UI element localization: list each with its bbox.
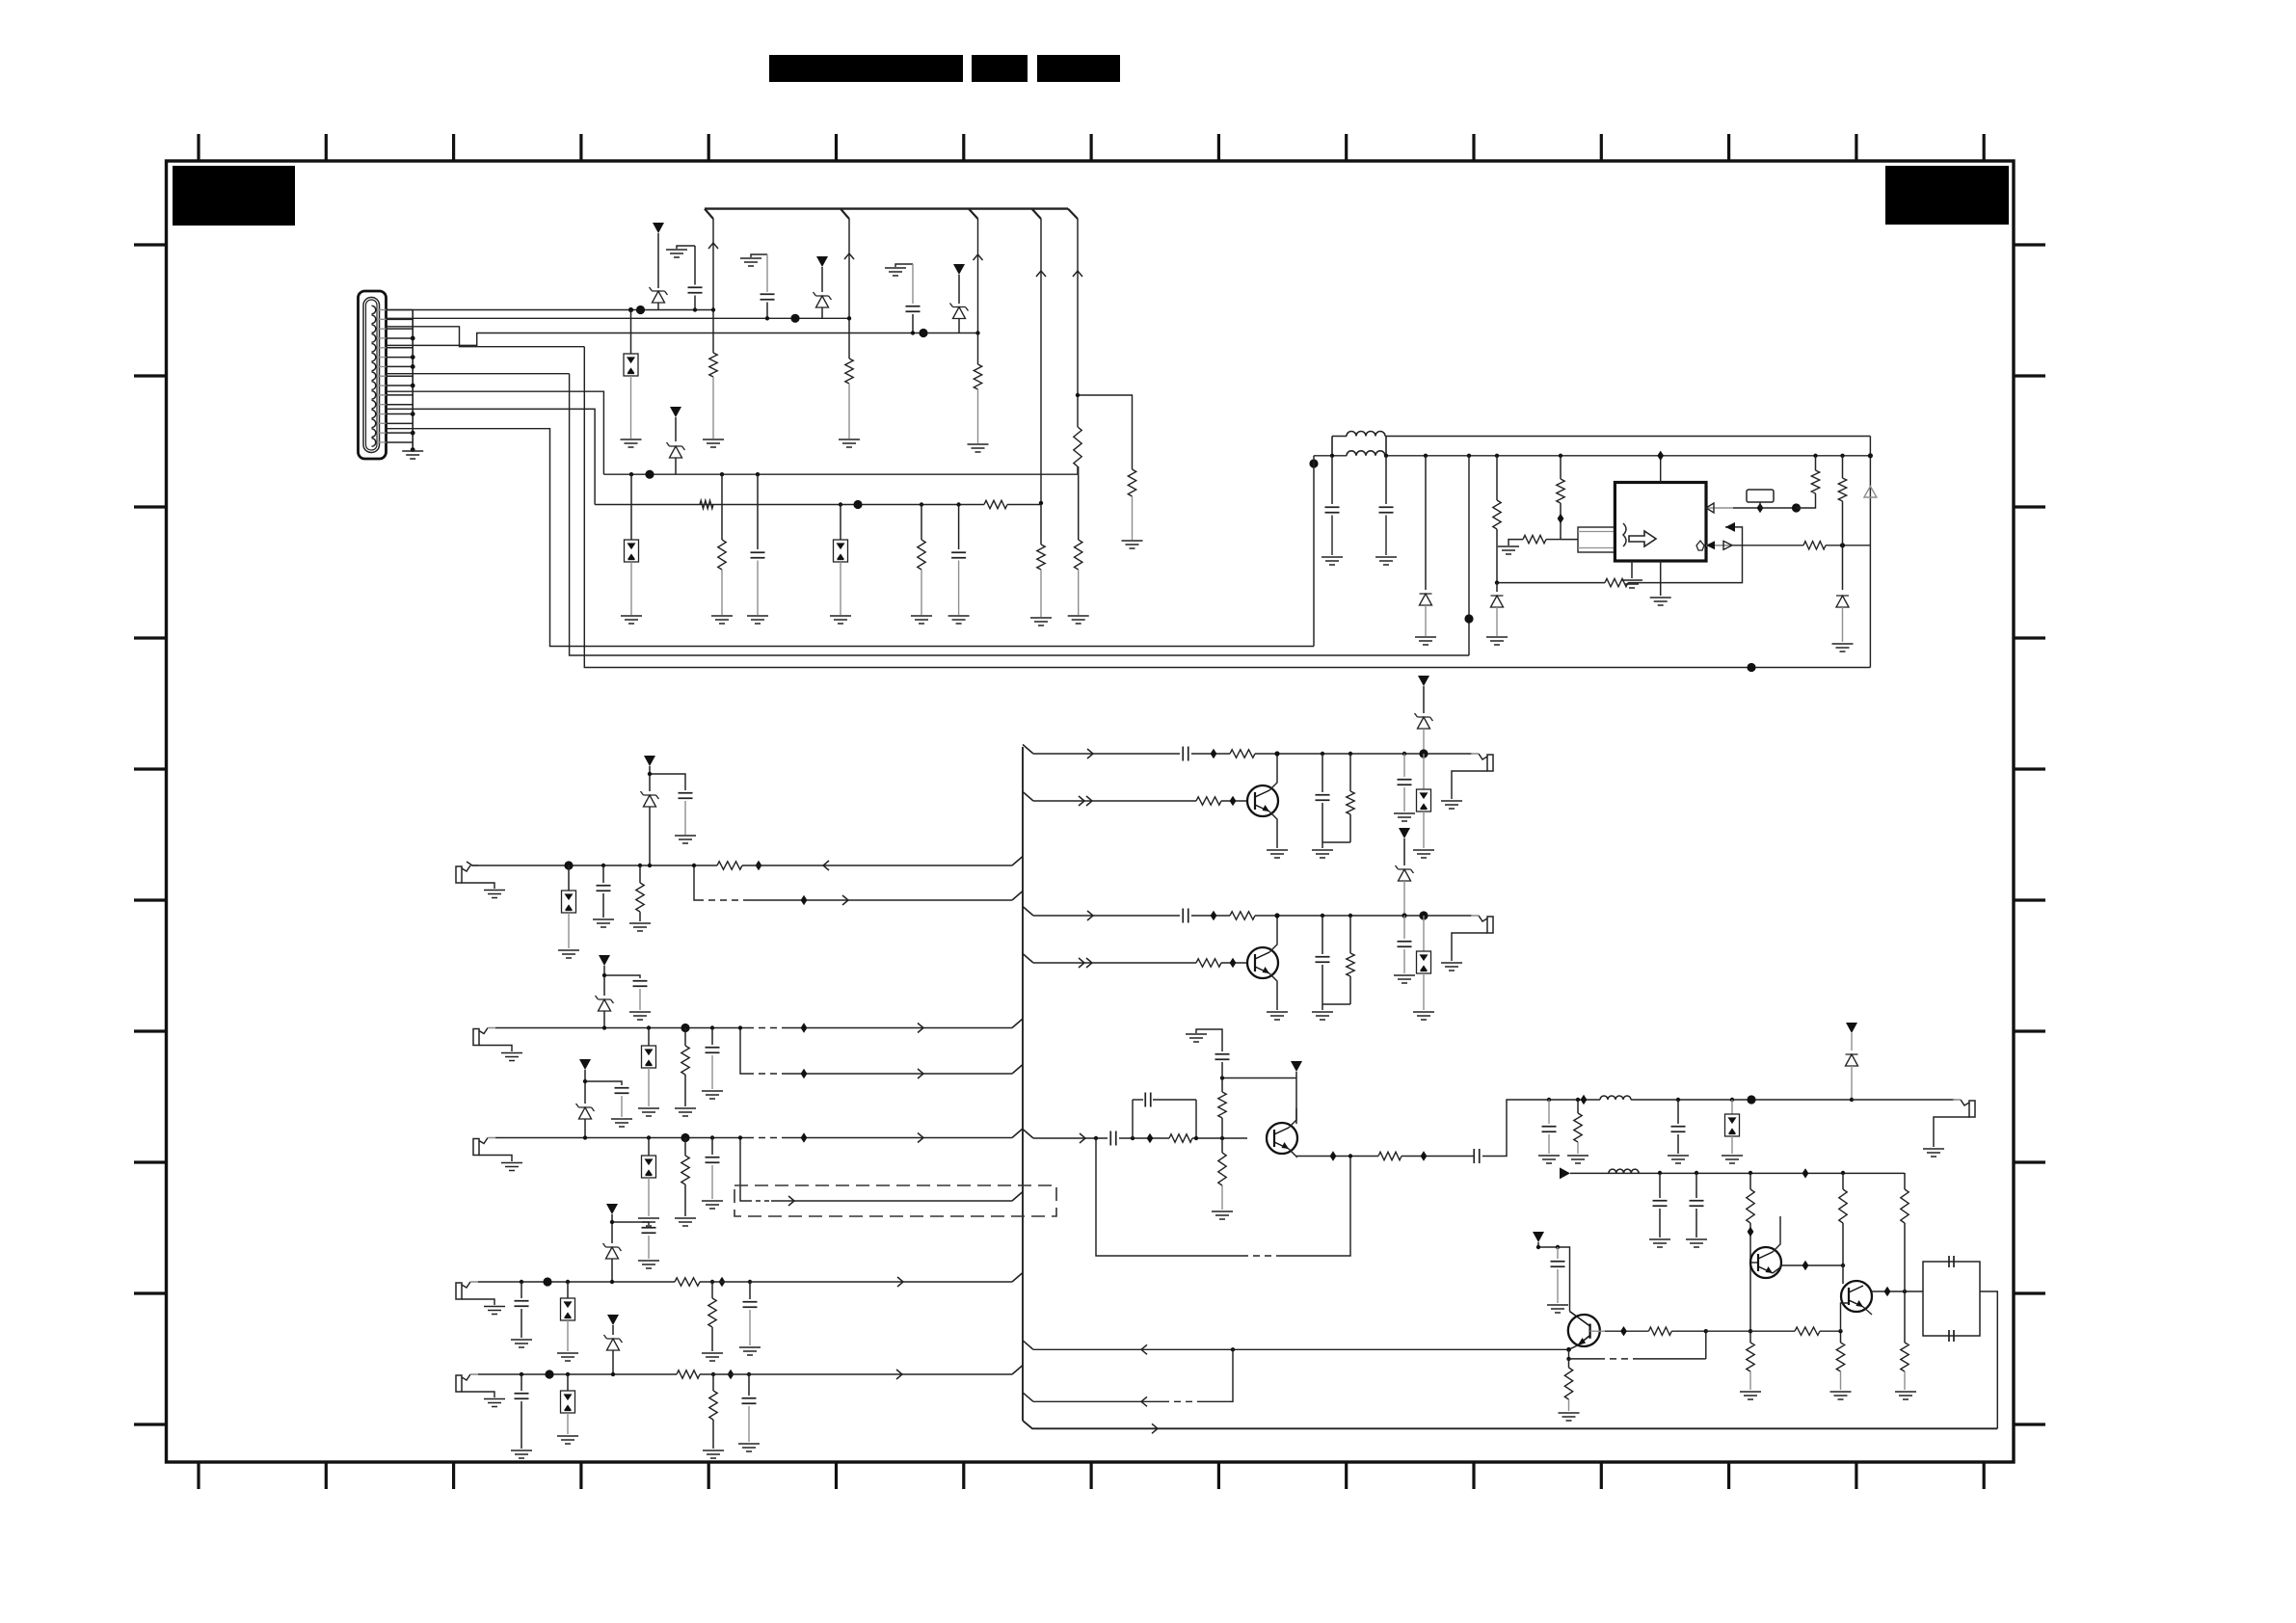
Q3 emitter wire [1289, 1149, 1296, 1157]
junction dot [853, 500, 862, 509]
wire mic in [1023, 1130, 1033, 1139]
wire jack2 main [495, 1027, 740, 1029]
capacitor C28 [1221, 1062, 1223, 1078]
ground [1030, 618, 1052, 625]
wire jack4 to bus [700, 1281, 1012, 1283]
ground [675, 836, 696, 843]
ground for connector [402, 451, 423, 459]
ground [593, 919, 614, 927]
ground [629, 1012, 651, 1020]
rail drop diagonal 3 [969, 209, 978, 219]
zener diode D16 [576, 1104, 595, 1119]
ground [839, 439, 860, 447]
wire net L2 [387, 317, 850, 319]
junction dot [1464, 614, 1473, 623]
wire Q4 collector feed [1538, 1247, 1570, 1312]
IC top pin [1660, 456, 1662, 483]
junction V4 line B [1039, 501, 1043, 505]
rail drop diagonal 2 [841, 209, 849, 219]
zener diode D3 [814, 292, 832, 307]
ruler tick marks [134, 134, 2045, 1489]
IC pin A wire [1706, 507, 1733, 509]
wire hp2 top [1023, 907, 1033, 917]
ground [1415, 637, 1436, 645]
IC pin bundle [1578, 527, 1615, 552]
ceramic filter X1 [1923, 1262, 1980, 1336]
wire base node [1222, 1078, 1296, 1079]
ground [948, 616, 970, 624]
ground [1668, 1156, 1689, 1163]
capacitor C7 [1384, 454, 1388, 458]
ground [675, 1108, 696, 1116]
transistor Q1 [1247, 785, 1278, 816]
ground [1559, 1413, 1580, 1421]
wire jack3 branch in callout [740, 1138, 747, 1202]
resistor R10 [920, 502, 923, 506]
capacitor C23 [1402, 752, 1406, 756]
transistor Q2 [1247, 947, 1278, 978]
jack CN9 [1969, 1101, 1975, 1117]
resistor R2 [845, 359, 853, 384]
resistor R40 [1904, 1173, 1906, 1189]
ground [711, 616, 733, 624]
resistor R3 [974, 364, 981, 389]
supply arrow 7 [579, 1059, 591, 1070]
wire hp1 top [1023, 745, 1033, 755]
ESD diode pair D12 [568, 865, 570, 891]
ground [830, 616, 851, 624]
rail drop diagonal 1 [705, 209, 713, 219]
wire emitter out [1296, 1156, 1378, 1157]
connector J1 pins [372, 306, 376, 446]
junction dot [1419, 749, 1428, 758]
connector pin wires [387, 310, 414, 442]
resistor R9 series [984, 500, 1007, 508]
capacitor C34 [1556, 1245, 1560, 1249]
resistor R24 [710, 1280, 714, 1284]
ground [1567, 1156, 1589, 1163]
ground [703, 439, 724, 447]
rail end diagonal [1068, 209, 1078, 219]
junction dot [681, 1024, 689, 1032]
wire hp2 base [1023, 954, 1033, 964]
zener diode D19 [603, 1243, 622, 1259]
resistor R19 [638, 864, 642, 867]
zener diode D4 [950, 304, 969, 319]
transistor Q6 [1841, 1281, 1872, 1312]
wire line U upper [1332, 436, 1870, 438]
capacitor C16 [520, 1280, 523, 1284]
resistor R8 at line A end [1078, 474, 1080, 540]
jack CN3 [473, 1029, 479, 1046]
resistor R26 [711, 1372, 715, 1376]
ESD diode pair D5 [630, 474, 632, 540]
inductor L3 [1609, 1169, 1639, 1173]
wire to IC pin B [1628, 527, 1743, 583]
rail drop diagonal 4 [1032, 209, 1042, 219]
IC ground stubs [1631, 561, 1633, 578]
wire pin12 staircase to line B [387, 409, 596, 504]
ground [558, 950, 579, 958]
ground [638, 1218, 659, 1226]
capacitor C22 [1321, 752, 1324, 756]
ground [702, 1353, 723, 1361]
wire pin8 to vertical Vb [387, 373, 570, 375]
junction dot [919, 329, 927, 337]
vertical V3 with arrow [977, 219, 979, 364]
ground [511, 1340, 532, 1347]
ground [702, 1091, 723, 1099]
ground [1413, 850, 1434, 858]
resistor R41 bias [1749, 1329, 1752, 1333]
zener diode D2 [650, 287, 668, 303]
resistor R31 series [1196, 959, 1221, 967]
diamond marker [719, 1277, 726, 1287]
ground [511, 1450, 532, 1458]
supply arrow [653, 223, 664, 233]
zener diode D14 [596, 996, 614, 1011]
IC pin B arrowhead [1725, 522, 1735, 532]
ground [1830, 1392, 1852, 1399]
resistor R11 [1040, 505, 1042, 545]
jack CN8 [1487, 917, 1493, 933]
diamond marker [756, 861, 762, 870]
ground [747, 616, 768, 624]
diamond marker [728, 1370, 734, 1379]
vertical V5 with arrow [1077, 219, 1079, 427]
wire output line1 left [1549, 1099, 1600, 1101]
resistor R14 [1559, 454, 1562, 458]
ESD diode pair D23 [1423, 754, 1425, 789]
jack CN4 [473, 1139, 479, 1156]
ground [1538, 1156, 1560, 1163]
series capacitor C27 [1110, 1131, 1116, 1146]
wire to pin B [1497, 582, 1605, 584]
ESD diode pair D25 [1423, 916, 1425, 951]
zener diode D13 [641, 791, 659, 807]
resistor R38 [1749, 1171, 1752, 1175]
wire pin14 staircase to vertical Va [387, 429, 550, 463]
ground [1486, 637, 1508, 645]
wire net L1 [387, 309, 714, 311]
zener diode D22 [1415, 713, 1433, 729]
capacitor C2 [766, 254, 768, 292]
junction dot [790, 314, 799, 323]
ground [1212, 1211, 1233, 1219]
ground [739, 1347, 761, 1355]
ground [1394, 813, 1415, 821]
transistor Q4 [1568, 1315, 1600, 1346]
zener diode D21 [604, 1335, 623, 1350]
capacitor C14 branch [585, 1081, 622, 1085]
vertical V2 with arrow [848, 219, 850, 359]
wire output line2 [1570, 1172, 1905, 1174]
IC U1 box [1615, 483, 1706, 562]
ground [702, 1201, 723, 1209]
wire jack2 to bus [740, 1027, 747, 1029]
junction dot [1747, 663, 1755, 672]
ground hook [677, 246, 695, 249]
wire vertical Vc to nested line 3 [584, 347, 1870, 668]
resistor R17 series [1803, 542, 1826, 549]
resistor R5 [1074, 427, 1081, 466]
wire output line1 [1631, 1099, 1852, 1101]
resistor R42 bias [1840, 1331, 1842, 1343]
ground [1895, 1392, 1916, 1399]
ground [1649, 1239, 1670, 1247]
top-right label box [1885, 166, 2009, 225]
capacitor C3 [912, 264, 914, 304]
diode D11 gray [1864, 487, 1877, 498]
capacitor C11 branch [604, 975, 640, 978]
wire net L3 with jog [387, 333, 978, 346]
supply arrow 2 [816, 256, 828, 267]
wire jack3 to bus [740, 1137, 747, 1139]
capacitor C1 [694, 246, 696, 285]
zener diode D24 [1396, 865, 1414, 881]
ESD diode pair D1 [630, 310, 632, 355]
resistor R20 series [717, 862, 742, 869]
jack CN6 [456, 1375, 462, 1392]
supply arrow 4 [670, 407, 681, 417]
junction dot [1309, 459, 1318, 467]
wire pin10 staircase to line A [387, 391, 604, 474]
wire to jack [1852, 1099, 1955, 1101]
capacitor C4 [756, 472, 760, 476]
ESD diode pair D26 [1730, 1098, 1734, 1102]
inductor L1a [1347, 432, 1385, 437]
wire jack5 to bus [700, 1373, 1012, 1375]
wire vertical Vb to nested line 2 [570, 374, 1469, 655]
capacitor C15 [710, 1135, 714, 1139]
feedback cap bridge [1132, 1100, 1134, 1138]
junction dot [545, 1370, 553, 1378]
wire Q4 below resistor [1568, 1359, 1570, 1368]
wire branch to V6 [1078, 395, 1133, 469]
junction dot [564, 861, 573, 869]
IC internal pentagon [1696, 541, 1704, 550]
capacitor C32 [1658, 1171, 1662, 1175]
supply arrow 8 [606, 1204, 618, 1214]
resistor R18 [1840, 454, 1844, 458]
ESD diode pair D15 [647, 1025, 651, 1029]
supply arrow 11 [1399, 828, 1410, 838]
supply arrow 3 [953, 264, 965, 275]
junction [1840, 543, 1845, 547]
capacitor C18 [748, 1280, 752, 1284]
wire to bus [742, 865, 759, 866]
ESD diode pair D18 [566, 1280, 570, 1284]
capacitor C20 [747, 1372, 751, 1376]
resistor R12 [1495, 454, 1499, 458]
resistor R33 series [1169, 1134, 1192, 1142]
ESD diode pair D17 [647, 1135, 651, 1139]
ground [1547, 1305, 1568, 1313]
resistor R15 to ground [1523, 535, 1546, 543]
dashed callout box [734, 1185, 1056, 1216]
capacitor C30 [1547, 1098, 1551, 1102]
signal bus [1022, 747, 1024, 1421]
ground [911, 616, 932, 624]
resistor R28 series [1196, 797, 1221, 805]
resistor R7 [720, 472, 724, 476]
supply arrow 14 [1533, 1232, 1544, 1242]
ground [638, 1108, 659, 1116]
resistor R34 base pullup [1220, 1136, 1224, 1140]
wire line B left segment resistor [700, 500, 713, 508]
resistor R29 [1348, 752, 1352, 756]
junction dot [1419, 911, 1428, 919]
top supply rail [705, 207, 1068, 209]
ground [1740, 1392, 1761, 1399]
wire jack2 branch [740, 1028, 747, 1075]
supply rail mid [1314, 455, 1870, 457]
ground [557, 1436, 578, 1444]
resistor R1 [709, 353, 717, 377]
title block bar 3 [1037, 55, 1120, 82]
wire filter return [1980, 1291, 1997, 1428]
ground [1394, 975, 1415, 983]
inductor L1b [1347, 451, 1385, 456]
wire vertical Va to nested line 1 [550, 463, 1315, 647]
wire line B [595, 504, 984, 506]
Q2 collector wire [1269, 916, 1277, 952]
wire Q4 base line [1023, 1341, 1033, 1350]
ground [629, 923, 651, 931]
diamond marker [1581, 1095, 1588, 1104]
diode D9 [1496, 583, 1498, 592]
wire pin3 staircase to vertical Vc [387, 327, 585, 347]
vertical V1 with arrow [712, 219, 714, 353]
IC pin C wire [1706, 545, 1733, 546]
resistor R36 series [1378, 1152, 1402, 1159]
junction dot [1747, 1095, 1755, 1104]
vertical V4 with arrow [1040, 219, 1042, 503]
feedback loop lower [1096, 1138, 1241, 1256]
wire jack5 main [478, 1373, 677, 1375]
supply arrow 6 [599, 955, 610, 966]
schematic border frame [167, 161, 2015, 1462]
ground [1832, 644, 1854, 652]
series capacitor C29 [1474, 1149, 1480, 1163]
wire Q6 out to filter [1872, 1290, 1923, 1292]
junction dots on collector [411, 336, 415, 341]
series capacitor C21 [1183, 747, 1188, 761]
resistor R45 series [1706, 1330, 1795, 1332]
ground hook 3 [895, 264, 913, 267]
Q1 emitter wire [1269, 811, 1277, 848]
ground hook 2 [751, 254, 767, 257]
capacitor C5 [956, 502, 960, 506]
resistor R22 [684, 1138, 686, 1157]
ESD diode pair D20 [566, 1372, 570, 1376]
zener diode D6 [667, 442, 685, 458]
vertical right loop [1869, 437, 1871, 668]
wire jack3 main [495, 1137, 740, 1139]
wire hp1 base [1023, 792, 1033, 802]
resistor R16 [1813, 454, 1817, 458]
transistor Q5 [1750, 1247, 1781, 1278]
junction to dashed [1704, 1329, 1708, 1333]
ground [1312, 1012, 1333, 1020]
ground [968, 444, 989, 452]
ground [557, 1353, 578, 1361]
resistor R35 base pulldown [1221, 1138, 1223, 1153]
jack CN2 [456, 866, 462, 883]
Q1 collector wire [1269, 754, 1277, 790]
ESD diode pair D7 [839, 502, 842, 506]
series capacitor C24 [1183, 909, 1188, 923]
supply arrow 5 [644, 756, 655, 766]
junction [1402, 913, 1406, 918]
ground [1267, 850, 1288, 858]
title block bar 2 [972, 55, 1028, 82]
Q2 emitter wire [1269, 973, 1277, 1010]
capacitor C9 branch [650, 774, 685, 790]
supply arrow 12 [1291, 1061, 1302, 1072]
ground [1413, 1012, 1434, 1020]
resistor R43 bias [1904, 1291, 1906, 1343]
resistor R21 [684, 1028, 686, 1047]
wire line A [603, 473, 1078, 475]
ground [738, 1444, 760, 1451]
resistor R32 [1348, 914, 1352, 918]
wire to pin bundle [1561, 539, 1578, 541]
junction dot [645, 470, 654, 479]
supply arrow 9 [607, 1315, 619, 1325]
ground [621, 616, 642, 624]
resistor R37 [1576, 1098, 1580, 1102]
choke stubs [1332, 437, 1386, 456]
capacitor C8 [601, 864, 605, 867]
transistor Q3 [1267, 1123, 1297, 1154]
ground [1122, 541, 1143, 548]
wire jack1 main [478, 865, 717, 866]
resistor R6 [1128, 469, 1135, 496]
wire jack1 branch [694, 865, 697, 900]
capacitor C19 [520, 1372, 523, 1376]
diode D10 [1842, 545, 1844, 590]
ground [1068, 616, 1089, 624]
top-left label box [173, 166, 295, 226]
supply arrow 10 [1418, 676, 1429, 686]
resistor R23 series [675, 1278, 700, 1286]
ground [638, 1261, 659, 1268]
ground [1267, 1012, 1288, 1020]
supply arrow 13 [1846, 1023, 1857, 1033]
IC internal arrow [1629, 531, 1656, 546]
ground [1322, 557, 1343, 565]
diode D8 [1424, 454, 1428, 458]
capacitor C25 [1321, 914, 1324, 918]
resistor R13 series [1605, 578, 1628, 586]
ground [611, 1119, 632, 1127]
jack CN7 [1487, 755, 1493, 771]
output arrow [1560, 1167, 1570, 1179]
resistor R39 [1841, 1171, 1845, 1175]
junction [628, 307, 633, 312]
wire merge lower [1023, 1393, 1033, 1402]
junction [629, 472, 633, 476]
vertical to IC area [1467, 454, 1471, 458]
jack CN5 [456, 1283, 462, 1299]
resistor R27 series [1230, 750, 1255, 758]
junction dot [681, 1133, 689, 1142]
ground [1722, 1156, 1743, 1163]
ground [675, 1218, 696, 1226]
wire jack4 main [478, 1281, 675, 1283]
junction dot [636, 306, 645, 314]
